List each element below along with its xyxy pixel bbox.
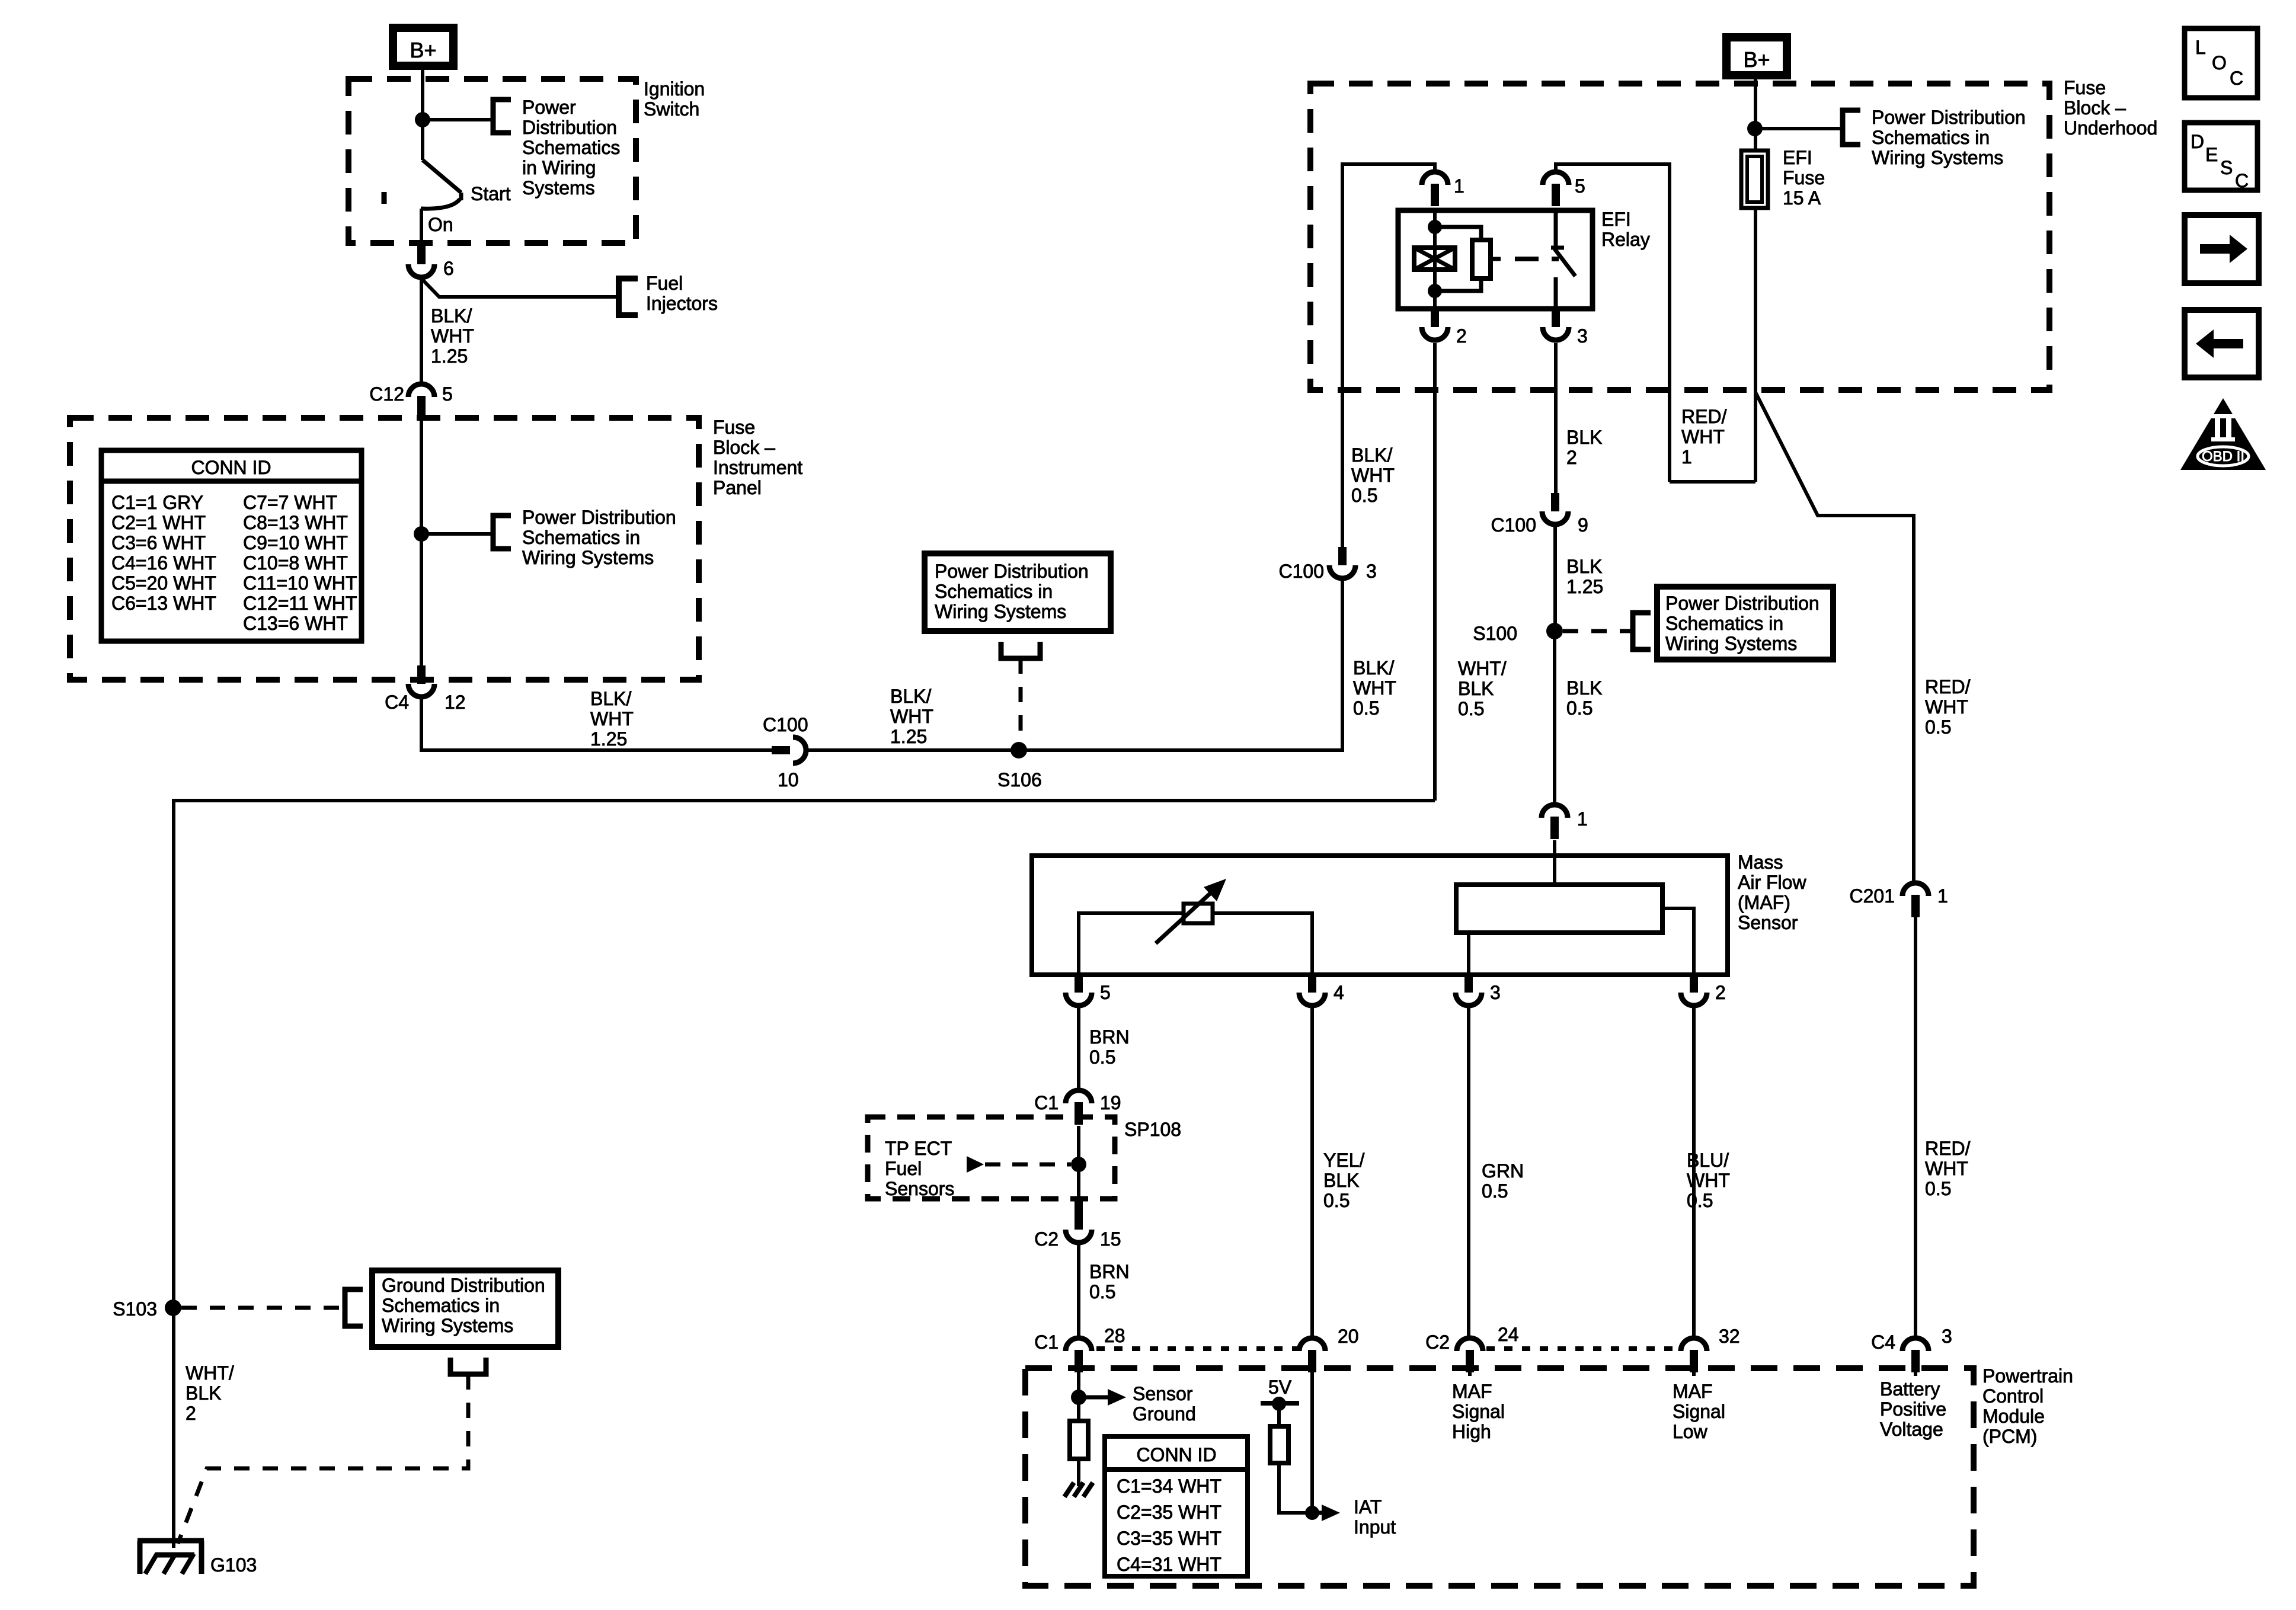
- svg-text:1.25: 1.25: [590, 728, 627, 750]
- svg-text:WHT/: WHT/: [186, 1362, 234, 1384]
- dashed wire TP ECT to splice: [985, 1163, 1071, 1167]
- svg-text:28: 28: [1104, 1325, 1125, 1346]
- svg-text:(PCM): (PCM): [1982, 1426, 2037, 1447]
- svg-text:Battery: Battery: [1880, 1378, 1940, 1400]
- svg-text:Power Distribution: Power Distribution: [1665, 593, 1819, 614]
- DESC icon box: [2185, 123, 2257, 190]
- svg-text:Power: Power: [522, 97, 576, 118]
- node IAT input junction: [1305, 1506, 1319, 1520]
- wire C201-1 down to PCM C4-3: [1914, 917, 1917, 1338]
- PCM internal resistor (IAT): [1270, 1426, 1288, 1463]
- connector C4 pin 12 below fuse block: [417, 665, 426, 684]
- wire B+ to ignition switch: [421, 70, 424, 120]
- ignition switch sweep arc: [421, 199, 460, 209]
- EFI relay box: [1398, 210, 1593, 309]
- relay coil wire: [1433, 210, 1437, 309]
- svg-text:Schematics in: Schematics in: [1872, 127, 1990, 148]
- svg-text:C3=6 WHT: C3=6 WHT: [111, 532, 206, 553]
- svg-text:24: 24: [1498, 1324, 1519, 1345]
- connector C4 pin 3 into PCM: [1902, 1338, 1929, 1351]
- PCM dashed box: [1025, 1368, 1974, 1586]
- arrow from TP ECT sensors: [967, 1156, 984, 1173]
- relay coil symbol (crossed box): [1414, 248, 1455, 270]
- wire tap to reference bracket: [421, 532, 493, 536]
- battery feed B+ terminal (right): [1722, 33, 1791, 79]
- svg-text:BLK/: BLK/: [1353, 657, 1394, 678]
- svg-text:Positive: Positive: [1880, 1398, 1946, 1420]
- svg-text:CONN ID: CONN ID: [191, 457, 271, 478]
- svg-text:4: 4: [1334, 982, 1344, 1003]
- svg-text:WHT: WHT: [1351, 465, 1395, 486]
- relay switch fixed contact from pin 5: [1554, 210, 1558, 247]
- wire branch to fuel injectors: [421, 279, 619, 297]
- node fuse block tap: [414, 526, 429, 542]
- svg-text:5: 5: [442, 383, 453, 405]
- svg-text:S100: S100: [1473, 623, 1517, 644]
- svg-text:2: 2: [1566, 447, 1577, 468]
- relay resistor stub: [1491, 257, 1501, 261]
- svg-text:B+: B+: [1743, 47, 1770, 72]
- svg-text:Injectors: Injectors: [646, 293, 718, 314]
- connector relay pin 1: [1422, 172, 1448, 185]
- connector pin 20 into PCM: [1299, 1338, 1325, 1351]
- svg-text:1: 1: [1937, 885, 1948, 907]
- svg-text:Fuel: Fuel: [885, 1158, 922, 1179]
- svg-text:5: 5: [1575, 175, 1585, 197]
- svg-text:O: O: [2212, 52, 2227, 73]
- svg-text:C1=1 GRY: C1=1 GRY: [111, 492, 203, 513]
- wire C2-24 stub into PCM: [1468, 1372, 1472, 1376]
- connector C1 pin 28 into PCM: [1066, 1338, 1092, 1351]
- wire C100-3 up to relay pin 1: [1342, 164, 1435, 548]
- ground run wire across to left side: [174, 801, 1435, 1548]
- svg-text:BLK/: BLK/: [890, 686, 931, 707]
- reference bracket Power Distribution (S100): [1633, 613, 1651, 649]
- svg-text:C13=6 WHT: C13=6 WHT: [243, 613, 348, 634]
- back arrow icon box: [2185, 310, 2259, 377]
- svg-text:E: E: [2205, 144, 2218, 165]
- connector C2 pin 24 into PCM: [1457, 1338, 1483, 1351]
- svg-text:High: High: [1452, 1421, 1491, 1442]
- svg-text:1: 1: [1577, 808, 1588, 830]
- arrow IAT Input: [1312, 1511, 1322, 1515]
- svg-text:0.5: 0.5: [1353, 697, 1379, 719]
- svg-text:C100: C100: [763, 714, 808, 735]
- wire C2-15 down to PCM C1-28: [1077, 1245, 1080, 1338]
- svg-text:WHT: WHT: [1925, 696, 1968, 718]
- svg-text:3: 3: [1366, 561, 1377, 582]
- svg-text:0.5: 0.5: [1089, 1281, 1115, 1302]
- svg-text:B+: B+: [410, 38, 436, 62]
- svg-text:C: C: [2230, 68, 2243, 89]
- svg-text:Sensor: Sensor: [1133, 1383, 1193, 1404]
- svg-text:EFI: EFI: [1783, 147, 1812, 168]
- connector MAF pin 5: [1075, 974, 1083, 993]
- dashed wire reference to S106: [1019, 658, 1023, 745]
- wire EFI fuse down to junction with relay pin 5 riser: [1754, 208, 1757, 482]
- svg-text:0.5: 0.5: [1482, 1180, 1508, 1202]
- relay resistor: [1472, 240, 1491, 279]
- connector C1 pin 19: [1066, 1090, 1092, 1103]
- svg-text:C2: C2: [1034, 1228, 1059, 1250]
- svg-text:C12=11 WHT: C12=11 WHT: [243, 593, 357, 614]
- wire relay pin 3 down to C100-9: [1554, 343, 1558, 493]
- wire C4-3 stub into PCM: [1914, 1372, 1917, 1376]
- svg-text:Signal: Signal: [1673, 1401, 1725, 1422]
- svg-text:BRN: BRN: [1089, 1026, 1130, 1048]
- svg-text:Wiring Systems: Wiring Systems: [382, 1315, 513, 1336]
- svg-text:BLK: BLK: [1566, 556, 1602, 577]
- relay switch blade (open): [1555, 249, 1575, 276]
- svg-text:WHT: WHT: [1681, 426, 1725, 447]
- svg-text:Powertrain: Powertrain: [1982, 1365, 2073, 1387]
- svg-text:10: 10: [778, 769, 799, 790]
- svg-text:C201: C201: [1850, 885, 1895, 907]
- wire MAF pin 5 down: [1077, 1008, 1080, 1090]
- wire MAF pin 2 down to PCM pin 32: [1692, 1008, 1696, 1338]
- svg-text:BLK: BLK: [1323, 1170, 1359, 1191]
- MAF resistor wire to pin 5: [1079, 913, 1184, 975]
- svg-text:GRN: GRN: [1482, 1160, 1524, 1182]
- svg-text:BLK/: BLK/: [1351, 444, 1392, 466]
- svg-text:Sensor: Sensor: [1738, 912, 1798, 933]
- svg-text:C8=13 WHT: C8=13 WHT: [243, 512, 348, 533]
- svg-text:Schematics in: Schematics in: [1665, 613, 1783, 634]
- svg-text:Module: Module: [1982, 1406, 2045, 1427]
- wire relay pin 2 down to ground run: [1433, 343, 1437, 801]
- svg-text:0.5: 0.5: [1458, 698, 1484, 719]
- node ignition feed junction: [415, 112, 430, 127]
- node SP108 splice: [1071, 1157, 1086, 1172]
- wire S100 down to MAF pin 1: [1553, 631, 1556, 804]
- svg-text:WHT: WHT: [590, 708, 634, 729]
- splice box SP108 dashed: [868, 1117, 1115, 1199]
- svg-text:L: L: [2195, 37, 2206, 58]
- svg-text:BLK: BLK: [1566, 677, 1602, 699]
- MAF sensor box: [1032, 856, 1728, 975]
- relay switch lower contact: [1554, 277, 1558, 309]
- svg-text:9: 9: [1578, 514, 1588, 536]
- dashed wire S100 to reference bracket: [1563, 629, 1631, 633]
- svg-text:2: 2: [1456, 325, 1467, 347]
- svg-text:C2=35 WHT: C2=35 WHT: [1117, 1502, 1221, 1523]
- connector MAF pin 1: [1542, 805, 1568, 818]
- svg-text:TP ECT: TP ECT: [885, 1138, 952, 1159]
- svg-text:Signal: Signal: [1452, 1401, 1505, 1422]
- connector relay pin 2: [1431, 309, 1439, 327]
- relay switch contact tick: [1551, 246, 1564, 250]
- svg-text:On: On: [428, 214, 453, 235]
- PCM internal ground symbol: [1064, 1483, 1074, 1497]
- wire resistor to internal ground: [1077, 1459, 1080, 1486]
- svg-text:RED/: RED/: [1681, 406, 1727, 427]
- svg-text:5: 5: [1100, 982, 1111, 1003]
- svg-text:Ignition: Ignition: [644, 78, 705, 100]
- svg-text:Switch: Switch: [644, 98, 699, 120]
- svg-text:2: 2: [186, 1403, 196, 1424]
- CONN ID table (instrument panel): [101, 450, 362, 641]
- svg-text:WHT: WHT: [1687, 1170, 1730, 1191]
- svg-text:Sensors: Sensors: [885, 1178, 954, 1199]
- 5V supply bar: [1261, 1401, 1299, 1406]
- ignition switch Lock contact tick: [382, 192, 387, 204]
- svg-text:Air Flow: Air Flow: [1738, 872, 1806, 893]
- svg-text:C1: C1: [1034, 1092, 1059, 1113]
- svg-text:G103: G103: [210, 1554, 257, 1576]
- connector relay pin 5: [1543, 172, 1569, 185]
- svg-text:1.25: 1.25: [431, 345, 468, 367]
- svg-text:Mass: Mass: [1738, 852, 1783, 873]
- svg-text:3: 3: [1577, 325, 1588, 347]
- reference box Power Distribution (S106): [925, 553, 1111, 631]
- svg-text:BLK/: BLK/: [590, 688, 631, 709]
- svg-text:WHT: WHT: [1925, 1158, 1968, 1179]
- svg-text:SP108: SP108: [1124, 1119, 1181, 1140]
- connector relay pin 3: [1552, 309, 1560, 327]
- svg-text:C1=34 WHT: C1=34 WHT: [1117, 1475, 1221, 1497]
- svg-text:C2: C2: [1425, 1331, 1450, 1353]
- wire pin 32 stub into PCM: [1692, 1372, 1696, 1376]
- svg-text:0.5: 0.5: [1089, 1046, 1115, 1068]
- svg-text:Block –: Block –: [713, 437, 775, 458]
- ignition switch pole wire: [421, 120, 424, 160]
- svg-text:Fuel: Fuel: [646, 273, 683, 294]
- node B+ junction underhood: [1747, 121, 1763, 136]
- svg-text:C6=13 WHT: C6=13 WHT: [111, 593, 216, 614]
- relay coil parallel resistor branch: [1435, 227, 1481, 291]
- svg-text:Input: Input: [1354, 1516, 1396, 1538]
- svg-text:0.5: 0.5: [1351, 485, 1377, 506]
- wire relay pin5 riser to junction: [1556, 164, 1670, 482]
- connector C2 pin 15: [1075, 1200, 1083, 1230]
- svg-text:S103: S103: [113, 1298, 157, 1320]
- svg-text:C2=1 WHT: C2=1 WHT: [111, 512, 206, 533]
- wire MAF pin1 into sensing element: [1553, 840, 1556, 885]
- wire 5V to IAT divider: [1279, 1404, 1307, 1513]
- EFI fuse 15A: [1741, 151, 1768, 208]
- svg-text:3: 3: [1942, 1326, 1952, 1347]
- svg-text:WHT: WHT: [431, 325, 474, 347]
- wire MAF pin 4 down to PCM pin 20: [1310, 1008, 1314, 1338]
- svg-text:BRN: BRN: [1089, 1261, 1130, 1282]
- connector pin 32 into PCM: [1681, 1338, 1707, 1351]
- svg-text:(MAF): (MAF): [1738, 892, 1790, 913]
- forward arrow icon box: [2185, 215, 2259, 283]
- svg-text:Wiring Systems: Wiring Systems: [935, 601, 1066, 622]
- svg-text:Panel: Panel: [713, 477, 762, 498]
- svg-text:Fuse: Fuse: [1783, 167, 1825, 188]
- connector C12 pin 5 into fuse block: [408, 384, 434, 397]
- svg-text:C11=10 WHT: C11=10 WHT: [243, 572, 357, 594]
- svg-text:5V: 5V: [1268, 1377, 1292, 1398]
- svg-text:CONN ID: CONN ID: [1136, 1444, 1216, 1465]
- bracket below Ground Distribution box: [450, 1358, 486, 1374]
- svg-text:C4=16 WHT: C4=16 WHT: [111, 552, 216, 574]
- svg-text:D: D: [2191, 131, 2204, 152]
- svg-text:RED/: RED/: [1925, 1138, 1971, 1159]
- splice S106: [1011, 742, 1027, 758]
- OBD II icon triangle: [2180, 398, 2266, 470]
- svg-text:Start: Start: [471, 183, 511, 204]
- reference bracket Ground Distribution (S103): [345, 1289, 363, 1326]
- svg-text:WHT: WHT: [1353, 677, 1396, 699]
- svg-text:1.25: 1.25: [1566, 576, 1603, 597]
- svg-text:0.5: 0.5: [1566, 697, 1593, 719]
- wire S106 to corner and up to C100-3: [1019, 580, 1342, 750]
- svg-text:Schematics in: Schematics in: [382, 1295, 500, 1316]
- connector C100 pin 10 inline: [772, 746, 790, 754]
- PCM connector row dotted boundary: [1096, 1346, 1299, 1351]
- battery feed B+ terminal (left): [389, 24, 458, 70]
- svg-text:1.25: 1.25: [890, 726, 927, 747]
- svg-text:Control: Control: [1982, 1385, 2044, 1407]
- svg-text:Ground: Ground: [1133, 1403, 1196, 1425]
- svg-text:Wiring Systems: Wiring Systems: [522, 547, 654, 568]
- svg-text:0.5: 0.5: [1687, 1190, 1713, 1211]
- splice S103: [165, 1299, 181, 1316]
- wire C100-9 to S100: [1553, 527, 1557, 631]
- wire pin 20 down to IAT node: [1310, 1372, 1314, 1513]
- svg-text:Wiring Systems: Wiring Systems: [1665, 633, 1797, 654]
- svg-text:C4: C4: [1871, 1331, 1895, 1353]
- node relay coil top: [1428, 220, 1442, 234]
- svg-text:Schematics: Schematics: [522, 137, 620, 158]
- svg-text:Schematics in: Schematics in: [935, 581, 1053, 602]
- svg-text:S: S: [2220, 157, 2233, 178]
- svg-text:0.5: 0.5: [1323, 1190, 1350, 1211]
- svg-text:BLK: BLK: [186, 1382, 221, 1404]
- svg-text:2: 2: [1715, 982, 1726, 1003]
- wire MAF pin 3 down to PCM C2-24: [1467, 1008, 1470, 1338]
- connector C100 pin 3 inline: [1338, 547, 1347, 565]
- ignition switch dashed box: [348, 79, 636, 243]
- svg-text:C4: C4: [385, 692, 409, 713]
- wire junction to reference bracket (underhood): [1755, 127, 1843, 130]
- wire junction to reference bracket: [423, 118, 493, 121]
- svg-text:Instrument: Instrument: [713, 457, 802, 478]
- ground G103 symbol: [137, 1538, 204, 1544]
- svg-text:15 A: 15 A: [1783, 187, 1821, 209]
- svg-text:Relay: Relay: [1601, 229, 1650, 250]
- wire through SP108: [1077, 1126, 1080, 1203]
- bracket below S106 reference box: [1001, 642, 1040, 658]
- svg-text:in Wiring: in Wiring: [522, 157, 596, 178]
- svg-text:Power Distribution: Power Distribution: [935, 561, 1089, 582]
- svg-text:RED/: RED/: [1925, 676, 1971, 697]
- wire C4-12 down and right: [421, 698, 772, 750]
- svg-text:0.5: 0.5: [1925, 1178, 1951, 1199]
- svg-text:Wiring Systems: Wiring Systems: [1872, 147, 2003, 168]
- svg-text:IAT: IAT: [1354, 1496, 1382, 1518]
- svg-text:C1: C1: [1034, 1331, 1059, 1353]
- svg-text:C4=31 WHT: C4=31 WHT: [1117, 1554, 1221, 1575]
- svg-text:Fuse: Fuse: [713, 417, 755, 438]
- arrow Sensor Ground: [1079, 1395, 1108, 1400]
- svg-text:Low: Low: [1673, 1421, 1708, 1442]
- reference bracket Power Distribution (fuse block IP): [493, 516, 511, 549]
- svg-text:EFI: EFI: [1601, 209, 1631, 230]
- reference box Ground Distribution: [372, 1270, 558, 1347]
- svg-text:20: 20: [1338, 1326, 1359, 1347]
- svg-text:Distribution: Distribution: [522, 117, 617, 138]
- svg-text:3: 3: [1490, 982, 1501, 1003]
- node sensor ground junction: [1071, 1390, 1086, 1405]
- connector MAF pin 4: [1308, 974, 1316, 993]
- svg-text:Systems: Systems: [522, 177, 595, 199]
- svg-text:BLU/: BLU/: [1687, 1150, 1729, 1171]
- svg-text:1: 1: [1454, 175, 1464, 197]
- MAF element output wire right to pin 2: [1662, 908, 1694, 975]
- wire On contact down: [420, 209, 423, 246]
- svg-text:YEL/: YEL/: [1323, 1150, 1364, 1171]
- wire B+ to EFI fuse: [1754, 79, 1757, 151]
- svg-text:C12: C12: [369, 383, 404, 405]
- MAF element output wire down to pin 3: [1467, 933, 1470, 975]
- svg-text:MAF: MAF: [1452, 1381, 1492, 1402]
- svg-text:6: 6: [443, 258, 454, 279]
- svg-text:BLK/: BLK/: [431, 305, 472, 327]
- node 5V tap: [1272, 1397, 1286, 1411]
- CONN ID table (PCM): [1105, 1436, 1248, 1576]
- svg-text:12: 12: [445, 692, 466, 713]
- wire junction bottom bar: [1670, 480, 1755, 484]
- svg-text:Schematics in: Schematics in: [522, 527, 640, 548]
- svg-text:Power Distribution: Power Distribution: [1872, 107, 2026, 128]
- svg-text:Underhood: Underhood: [2064, 117, 2157, 139]
- dashed wire S103 to reference bracket: [181, 1306, 345, 1310]
- svg-text:S106: S106: [997, 769, 1042, 790]
- wire connector 6 to C12: [420, 279, 423, 384]
- fuse block underhood dashed box: [1310, 84, 2049, 390]
- reference bracket Power Distribution (ignition): [493, 100, 511, 133]
- ignition switch blade to Start: [423, 160, 461, 193]
- svg-text:C5=20 WHT: C5=20 WHT: [111, 572, 216, 594]
- MAF variable resistor: [1184, 904, 1213, 923]
- svg-text:Ground Distribution: Ground Distribution: [382, 1275, 545, 1296]
- MAF variable resistor arrow: [1156, 891, 1213, 943]
- reference bracket Power Distribution (underhood): [1843, 110, 1860, 145]
- svg-text:Power Distribution: Power Distribution: [522, 507, 676, 528]
- svg-text:WHT/: WHT/: [1458, 658, 1507, 679]
- reference bracket Fuel Injectors: [619, 279, 638, 315]
- svg-text:C100: C100: [1491, 514, 1537, 536]
- fuse block instrument panel dashed box: [70, 418, 699, 680]
- relay actuation dashes: [1515, 257, 1539, 261]
- svg-text:C: C: [2235, 170, 2249, 191]
- svg-text:OBD II: OBD II: [2202, 449, 2244, 465]
- svg-text:BLK: BLK: [1566, 427, 1602, 448]
- svg-text:C10=8 WHT: C10=8 WHT: [243, 552, 348, 574]
- svg-text:Fuse: Fuse: [2064, 77, 2106, 98]
- MAF resistor wire to pin 4: [1213, 913, 1312, 975]
- wire RED/WHT diagonal to PCM battery feed: [1755, 392, 1914, 883]
- svg-text:MAF: MAF: [1673, 1381, 1713, 1402]
- svg-text:Block –: Block –: [2064, 97, 2126, 119]
- PCM internal resistor (sensor ground): [1070, 1421, 1088, 1459]
- svg-text:C7=7 WHT: C7=7 WHT: [243, 492, 337, 513]
- splice S100: [1546, 623, 1563, 639]
- svg-text:15: 15: [1100, 1228, 1121, 1250]
- connector 6 below ignition switch: [417, 246, 426, 264]
- svg-text:C9=10 WHT: C9=10 WHT: [243, 532, 348, 553]
- svg-text:C3=35 WHT: C3=35 WHT: [1117, 1528, 1221, 1549]
- svg-text:19: 19: [1100, 1092, 1121, 1113]
- connector MAF pin 2: [1690, 974, 1698, 993]
- svg-text:BLK: BLK: [1458, 678, 1494, 699]
- svg-text:0.5: 0.5: [1925, 716, 1951, 738]
- svg-text:1: 1: [1681, 446, 1692, 468]
- wire through fuse block: [420, 421, 423, 665]
